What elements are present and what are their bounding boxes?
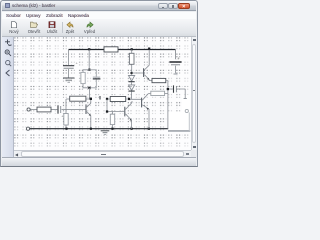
wire to left resistor [66, 99, 90, 110]
label stub [99, 96, 101, 100]
node R7 left [106, 98, 108, 100]
resistor R7 [110, 97, 126, 102]
capacitor C2 (top right) [169, 56, 181, 74]
node junction diode top [131, 72, 133, 74]
node R7 right [128, 98, 130, 100]
wire Q4 base [132, 98, 141, 100]
transistor Q1 [86, 100, 91, 129]
transistor Q2 [144, 50, 152, 81]
wire input row [30, 109, 85, 111]
wire center column [88, 50, 90, 70]
node junction top-right [148, 48, 150, 50]
wire Q2 base [132, 72, 143, 74]
wire bottom rail [26, 127, 29, 130]
capacitor C3 (in loop) [93, 77, 101, 79]
node junction top-left [88, 48, 90, 50]
capacitor C1 [63, 61, 79, 78]
resistor R4 [70, 96, 86, 101]
ground (bottom rail) [101, 131, 110, 135]
canvas background with dot grid [14, 37, 193, 152]
node junction top-mid [131, 48, 133, 50]
node junction Q3 base row [106, 110, 108, 112]
diode D2 [129, 82, 135, 99]
wire top rail [69, 49, 176, 51]
node junctions on bottom rail [65, 128, 67, 130]
wire center column lower [88, 88, 90, 99]
resistor R8 (vertical) [110, 112, 114, 128]
wire loop right branch [89, 70, 96, 88]
white page corner panel [168, 95, 191, 131]
resistor R2 (hangs from top rail) [129, 50, 134, 74]
resistor R5 (in top rail) [104, 47, 118, 52]
node junction loop bottom [88, 87, 90, 89]
wire R7 stubs [108, 98, 131, 100]
output terminal [185, 109, 188, 112]
diode D1 [129, 74, 135, 82]
transistor Q4 [142, 93, 151, 128]
wire rail left drop [68, 50, 70, 66]
wire R7-left column down to Q3 base row [107, 99, 124, 112]
input terminal [27, 108, 30, 111]
resistor R3 (vertical, light) [81, 72, 85, 83]
wire top-right corner drop [175, 50, 177, 60]
transistor Q3 [125, 101, 132, 129]
ground (below C1) [63, 78, 75, 82]
capacitor C5 (input coupling) [58, 105, 64, 118]
resistor RB (Q4 collector, light) [151, 91, 165, 95]
resistor RA (Q2 emitter, dark) [152, 78, 166, 82]
capacitor C4 (output, horizontal) [169, 84, 187, 99]
node junction loop top [88, 69, 90, 71]
node junction output [167, 88, 169, 90]
node junction center [90, 98, 92, 100]
wire loop left branch [83, 70, 89, 88]
resistor R6 (bias, vertical) [64, 110, 68, 129]
wire output column [165, 81, 168, 129]
resistor Rin [37, 107, 51, 112]
